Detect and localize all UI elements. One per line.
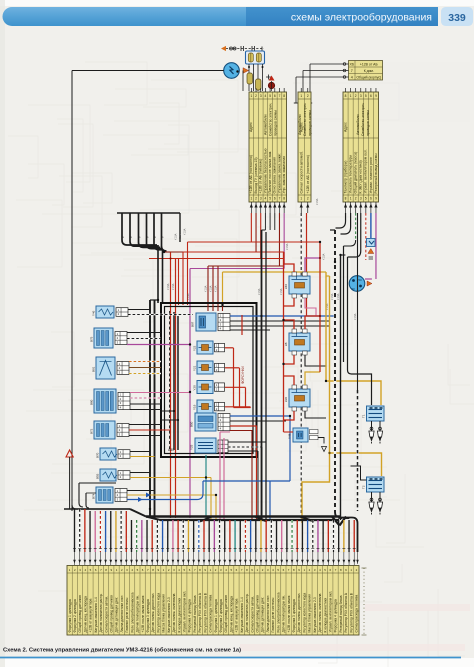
svg-text:Регулятор РХХ обмотка В: Регулятор РХХ обмотка В <box>203 592 207 632</box>
svg-text:Автомобили: Автомобили <box>356 115 360 135</box>
fuse block F1/F2 <box>246 51 265 64</box>
svg-text:К36: К36 <box>284 397 288 402</box>
wires: B55 outputs <box>130 473 211 520</box>
svg-text:+12В от аккумулятора: +12В от аккумулятора <box>89 599 93 633</box>
svg-text:Датчик полож. дроссельн.: Датчик полож. дроссельн. <box>297 593 301 633</box>
fuel pump motor (blue circle) <box>224 63 240 79</box>
svg-text:6: 6 <box>274 197 276 201</box>
connector table X3 <box>343 92 379 202</box>
svg-text:К 15А: К 15А <box>179 233 182 240</box>
wires: B91 outputs <box>129 362 161 374</box>
svg-text:К 15А: К 15А <box>175 233 178 240</box>
injector Y21 <box>193 361 225 374</box>
wire: mustard loop to coil T2 <box>302 276 382 523</box>
svg-text:Масса блока управления: Масса блока управления <box>308 594 312 633</box>
svg-text:1: 1 <box>350 94 352 98</box>
svg-text:Датчик полож. дроссельн.: Датчик полож. дроссельн. <box>151 593 155 633</box>
wire bundle: bottom comb drops to connector strip <box>73 509 356 565</box>
svg-text:6: 6 <box>370 197 372 201</box>
wires: B50 outputs <box>230 416 290 519</box>
svg-text:+12В от АБ (постоянно): +12В от АБ (постоянно) <box>306 155 310 193</box>
wires: pink pair to bus <box>220 432 230 519</box>
svg-text:+12В от АБ: +12В от АБ <box>360 62 379 66</box>
svg-text:проводов схемы: проводов схемы <box>308 110 312 136</box>
svg-text:К дим.: К дим. <box>364 69 374 73</box>
svg-text:Указатель температуры: Указатель температуры <box>349 154 353 193</box>
relay К36 <box>284 385 310 411</box>
wires: Y25 outputs <box>228 442 266 519</box>
svg-text:Датчик конц. кислорода: Датчик конц. кислорода <box>229 596 233 633</box>
svg-text:Датчик температуры ож.: Датчик температуры ож. <box>282 595 286 632</box>
svg-text:В50: В50 <box>190 421 194 427</box>
svg-text:К ЭБУ (диагностика): К ЭБУ (диагностика) <box>359 160 363 193</box>
wires: B72 outputs <box>129 425 171 436</box>
sensor В72 <box>90 421 130 439</box>
connector table X1 <box>249 92 287 202</box>
wires: black pair right of ECU <box>262 230 267 519</box>
ground lug (red arrow) <box>66 450 73 509</box>
svg-text:Тахометр (приборы): Тахометр (приборы) <box>343 161 347 194</box>
svg-text:Резервный вывод схемы: Резервный вывод схемы <box>374 153 378 194</box>
svg-text:8: 8 <box>345 94 347 98</box>
svg-text:Общий провод датчиков: Общий провод датчиков <box>255 595 259 633</box>
valve Y25 inside ECU <box>190 438 229 453</box>
svg-text:Управление безопасностью: Управление безопасностью <box>263 148 267 193</box>
wire: red right of ECU <box>283 252 285 432</box>
svg-text:Датчик положения распр.: Датчик положения распр. <box>99 593 103 632</box>
wire: thick dashed black vertical (main harness) <box>330 230 352 518</box>
wires: fuse block down-drops <box>243 64 264 91</box>
wires: B80 outputs <box>130 393 190 410</box>
svg-text:9: 9 <box>375 197 377 201</box>
wires: injector feeds from ECU top <box>208 305 223 311</box>
wire: blue harness y481 <box>203 481 290 519</box>
warning arrow (red) <box>269 76 275 81</box>
svg-text:Регулятор РХХ обмотка А: Регулятор РХХ обмотка А <box>344 592 348 632</box>
wires: B70 outputs <box>130 452 155 457</box>
svg-text:Y19: Y19 <box>193 404 197 410</box>
svg-text:Катушка зажигания 2-3: Катушка зажигания 2-3 <box>167 597 171 632</box>
svg-text:9: 9 <box>375 94 377 98</box>
svg-text:Общий двигатель (масса): Общий двигатель (масса) <box>354 152 358 194</box>
ECU control unit A30 <box>161 303 257 457</box>
sensor В80 <box>90 389 131 413</box>
sensor В74 <box>92 487 128 503</box>
wires: X2 top stems <box>301 88 308 92</box>
svg-text:+12В от АБ (постоянно): +12В от АБ (постоянно) <box>249 155 253 193</box>
wires: relay K8 connections <box>284 316 327 366</box>
wire: red feed vertical at relays <box>319 242 321 372</box>
sensor block B97 inside ECU <box>191 313 231 331</box>
svg-text:6: 6 <box>274 94 276 98</box>
svg-text:Семейство электрич.: Семейство электрич. <box>361 103 365 136</box>
svg-text:30: 30 <box>351 287 355 291</box>
ignition coil Т1 <box>362 406 385 421</box>
injector Y22 <box>193 341 225 354</box>
spark plug <box>369 426 374 444</box>
svg-text:проводов схемы: проводов схемы <box>366 110 370 136</box>
svg-text:Y48: Y48 <box>288 433 292 439</box>
svg-text:4: 4 <box>265 94 267 98</box>
svg-text:К46: К46 <box>284 284 288 289</box>
svg-text:Форсунка 1 цилиндра: Форсунка 1 цилиндра <box>214 599 218 632</box>
svg-text:Датчик детонации двиг.: Датчик детонации двиг. <box>261 596 265 632</box>
svg-text:3: 3 <box>360 94 362 98</box>
svg-text:Y46: Y46 <box>92 310 96 316</box>
svg-text:Реле электробензонасоса: Реле электробензонасоса <box>276 592 280 632</box>
svg-text:Регулятор РХХ обмотка В: Регулятор РХХ обмотка В <box>349 592 353 632</box>
svg-text:7: 7 <box>279 197 281 201</box>
injector Y19 <box>193 400 225 413</box>
wire: pump to left long run <box>72 70 224 72</box>
svg-text:Форсунка 4 цилиндра: Форсунка 4 цилиндра <box>188 599 192 632</box>
svg-text:К 15А: К 15А <box>280 288 283 295</box>
wire: mustard loop to coil T1 <box>326 272 381 405</box>
svg-text:Автомобили: Автомобили <box>263 115 267 135</box>
svg-text:1: 1 <box>300 197 302 201</box>
svg-text:Катушка зажигания 2-3: Катушка зажигания 2-3 <box>313 597 317 632</box>
svg-text:Масса блока управления: Масса блока управления <box>162 594 166 633</box>
svg-text:2: 2 <box>255 197 257 201</box>
svg-text:Форсунка 2 цилиндра: Форсунка 2 цилиндра <box>73 599 77 632</box>
wires: X1 top stems <box>251 88 284 92</box>
svg-text:Сигнал расхода топлива: Сигнал расхода топлива <box>355 595 359 633</box>
fuse holder 2 (olive) <box>256 79 262 90</box>
wires: X3 bottom stems <box>344 202 378 213</box>
svg-text:Питание после замка заж.: Питание после замка заж. <box>268 151 272 194</box>
svg-text:8: 8 <box>345 197 347 201</box>
svg-text:Y25: Y25 <box>190 444 194 450</box>
svg-text:В80: В80 <box>90 399 94 405</box>
svg-text:50: 50 <box>358 278 362 282</box>
svg-text:Датчик положения распр.: Датчик положения распр. <box>245 593 249 632</box>
wires: coil T1 feed hooks <box>344 246 372 405</box>
injector Y20 <box>193 381 225 394</box>
svg-text:Датчик полож. коленвала: Датчик полож. коленвала <box>318 593 322 632</box>
svg-text:К 15А: К 15А <box>167 283 170 290</box>
connector table X2 <box>298 92 312 202</box>
svg-text:6: 6 <box>370 94 372 98</box>
svg-text:Сигнал скорости автом.: Сигнал скорости автом. <box>104 596 108 633</box>
wires: B75 outputs <box>127 333 190 345</box>
wires: left drain hooks to bus <box>64 483 146 517</box>
svg-text:1: 1 <box>350 197 352 201</box>
wires: below table X3 <box>336 213 376 279</box>
spark plug <box>369 497 374 515</box>
junction dots <box>149 241 342 510</box>
svg-text:Y20: Y20 <box>193 385 197 391</box>
relay К46 <box>284 272 310 298</box>
svg-text:1: 1 <box>300 94 302 98</box>
wires: injector ladder (red) <box>225 315 251 408</box>
svg-text:Х6: Х6 <box>349 62 353 66</box>
svg-text:К 15А: К 15А <box>209 285 212 292</box>
svg-text:Схема 2. Система управления дв: Схема 2. Система управления двигателем У… <box>3 647 241 654</box>
svg-text:Управл. главного реле: Управл. главного реле <box>369 157 373 193</box>
svg-text:Датчик детонации двиг.: Датчик детонации двиг. <box>115 596 119 632</box>
wires: B97 outputs <box>230 316 335 330</box>
svg-text:2: 2 <box>307 94 309 98</box>
page header bar <box>3 7 474 26</box>
wires: relay K36 connections <box>284 372 327 420</box>
svg-text:+12В после замка зажиг.: +12В после замка зажиг. <box>287 595 291 633</box>
svg-text:3: 3 <box>260 197 262 201</box>
svg-text:339: 339 <box>448 12 466 24</box>
wire: comb bus top <box>117 212 180 214</box>
svg-text:Форсунка 3 цилиндра: Форсунка 3 цилиндра <box>146 599 150 632</box>
wire: dashed vertical near coils <box>341 213 359 564</box>
wires: X3 top stems <box>346 88 376 92</box>
sensor В75 <box>90 328 128 348</box>
svg-text:Катушка зажигания 1-4: Катушка зажигания 1-4 <box>240 597 244 632</box>
svg-text:Резервный вывод блока: Резервный вывод блока <box>193 595 197 632</box>
svg-text:К 15А: К 15А <box>184 228 187 235</box>
svg-text:1: 1 <box>250 197 252 201</box>
wire: comb funnel verticals <box>158 213 180 303</box>
svg-text:К 15А: К 15А <box>286 243 289 250</box>
svg-text:Резервный вывод блока: Резервный вывод блока <box>339 595 343 632</box>
svg-text:К8: К8 <box>284 342 288 346</box>
svg-text:Реле электробензонасоса: Реле электробензонасоса <box>130 592 134 632</box>
svg-text:Главное реле системы: Главное реле системы <box>271 597 275 632</box>
svg-text:Адрес: Адрес <box>299 122 303 132</box>
svg-text:2: 2 <box>355 197 357 201</box>
svg-text:2: 2 <box>255 94 257 98</box>
ignition coil Т2 <box>362 477 385 492</box>
wire: magenta to starter <box>365 278 372 280</box>
svg-text:2: 2 <box>307 197 309 201</box>
wires: red stubs into ECU top <box>179 242 327 305</box>
dotted measure line right of table X5 <box>362 568 367 635</box>
svg-text:1: 1 <box>250 94 252 98</box>
svg-text:Форсунка 2 цилиндра: Форсунка 2 цилиндра <box>219 599 223 632</box>
wires: below table X1 <box>149 213 320 269</box>
wires: coil T2 to plugs <box>351 466 381 497</box>
svg-text:А30: А30 <box>168 448 174 452</box>
wire: long left vertical bus <box>71 71 73 512</box>
wires: relay K46 connections <box>284 252 321 316</box>
svg-text:К 15А: К 15А <box>214 285 217 292</box>
svg-text:Общий провод датчиков: Общий провод датчиков <box>78 595 82 633</box>
svg-text:В70: В70 <box>96 452 100 458</box>
svg-text:5: 5 <box>269 197 271 201</box>
svg-text:Сигнал скорости автомоб.: Сигнал скорости автомоб. <box>299 151 303 194</box>
wire labels <box>167 198 357 320</box>
wire: main bottom bus <box>146 517 346 526</box>
svg-text:В75: В75 <box>90 336 94 342</box>
svg-text:8: 8 <box>283 197 285 201</box>
svg-text:Управление замка зажиг.: Управление замка зажиг. <box>277 153 281 194</box>
svg-text:К 15А: К 15А <box>204 285 207 292</box>
svg-text:Адрес: Адрес <box>249 122 253 132</box>
wires: B74 outputs <box>127 481 216 519</box>
svg-text:Семейство электрич.: Семейство электрич. <box>303 103 307 136</box>
svg-text:Датчик конц. кислорода: Датчик конц. кислорода <box>83 596 87 633</box>
svg-text:Катушка зажигания 1-4: Катушка зажигания 1-4 <box>94 597 98 632</box>
wire: dashed link line at top <box>221 46 264 51</box>
wires: black verticals to bottom bus <box>150 300 158 518</box>
svg-text:Управл. вентилятором охл.: Управл. вентилятором охл. <box>364 149 368 193</box>
svg-text:+12В от АБ (питание): +12В от АБ (питание) <box>259 159 263 194</box>
svg-text:+12В после замка зажиг.: +12В после замка зажиг. <box>141 595 145 633</box>
svg-text:Упр. замком зажигания: Упр. замком зажигания <box>282 156 286 194</box>
wires: X1 bottom stems <box>250 202 286 213</box>
connector arrow at pump <box>243 68 249 74</box>
page number box <box>441 7 473 26</box>
svg-text:Управл. вентилятором охл.: Управл. вентилятором охл. <box>328 591 332 633</box>
svg-text:2: 2 <box>355 94 357 98</box>
svg-text:В97: В97 <box>191 321 195 327</box>
sensor В55 <box>96 469 131 481</box>
relay К8 <box>284 329 310 355</box>
wires: red harness verticals <box>164 252 176 518</box>
svg-text:ФОРСУНКИ: ФОРСУНКИ <box>241 366 245 384</box>
svg-text:Сигнал расхода топлива: Сигнал расхода топлива <box>209 595 213 633</box>
connector arrow at starter <box>367 281 372 286</box>
svg-text:проводов схемы: проводов схемы <box>273 110 277 136</box>
svg-text:3: 3 <box>360 197 362 201</box>
valve Y48 <box>288 428 319 442</box>
starter motor (blue circle) <box>349 276 365 292</box>
sensor Y46 <box>92 306 129 318</box>
svg-text:5: 5 <box>365 197 367 201</box>
svg-text:В72: В72 <box>90 428 94 434</box>
wires: Y46 outputs <box>128 310 193 315</box>
svg-text:К колодке диагностики: К колодке диагностики <box>177 598 181 633</box>
svg-text:4: 4 <box>351 75 353 79</box>
svg-text:схемы электрооборудования: схемы электрооборудования <box>291 12 432 24</box>
sensor block B50 inside ECU <box>190 413 231 431</box>
fuse holder (olive) <box>247 73 253 84</box>
svg-text:Семейство электрич.: Семейство электрич. <box>268 103 272 136</box>
svg-text:Регулятор холостого хода: Регулятор холостого хода <box>156 593 160 633</box>
svg-text:Форсунка 3 цилиндра: Форсунка 3 цилиндра <box>292 599 296 632</box>
svg-text:Y22: Y22 <box>193 345 197 351</box>
svg-text:7: 7 <box>351 69 353 73</box>
svg-text:Адрес: Адрес <box>343 122 347 132</box>
svg-text:К колодке диагностики: К колодке диагностики <box>323 598 327 633</box>
svg-text:Форсунка 4 цилиндра: Форсунка 4 цилиндра <box>334 599 338 632</box>
sensor В91 <box>92 357 130 379</box>
svg-text:В74: В74 <box>92 493 96 499</box>
wire: magenta long vertical <box>189 269 191 519</box>
connector arrow below diagnostic box <box>368 249 374 254</box>
wires: X2 bottom stems <box>300 202 310 213</box>
footer rule (blue) <box>0 657 461 659</box>
svg-text:Регулятор РХХ обмотка А: Регулятор РХХ обмотка А <box>198 592 202 632</box>
svg-text:Датчик температуры ож.: Датчик температуры ож. <box>136 595 140 632</box>
svg-text:Окно замка зажигания: Окно замка зажигания <box>273 157 277 193</box>
wires: Y48 connections + ground <box>284 432 327 452</box>
svg-text:Общий провод датчиков: Общий провод датчиков <box>224 595 228 633</box>
svg-text:5: 5 <box>269 94 271 98</box>
svg-text:Выход ГУ (клемма 15): Выход ГУ (клемма 15) <box>254 157 258 193</box>
svg-text:5: 5 <box>365 94 367 98</box>
svg-text:В55: В55 <box>96 473 100 479</box>
svg-text:Лампа диагностики сист.: Лампа диагностики сист. <box>120 595 124 633</box>
svg-text:К 15А: К 15А <box>172 283 175 290</box>
diagnostic connector (small blue box) <box>367 239 376 247</box>
indicator lamp (dark red circle) <box>268 82 274 88</box>
svg-text:Общий (корпус): Общий (корпус) <box>356 75 381 79</box>
svg-text:Сигнал скорости автом.: Сигнал скорости автом. <box>250 596 254 633</box>
connector table X4 <box>349 61 383 81</box>
wires: below table X2 <box>301 213 320 520</box>
svg-text:К 15А: К 15А <box>354 313 357 320</box>
svg-text:Форсунка 1 цилиндра: Форсунка 1 цилиндра <box>68 599 72 632</box>
svg-text:3: 3 <box>260 94 262 98</box>
svg-text:В91: В91 <box>92 366 96 372</box>
svg-text:Т1: Т1 <box>362 414 366 418</box>
sensor В70 <box>96 448 131 460</box>
svg-text:8: 8 <box>283 94 285 98</box>
spark plug <box>377 497 382 515</box>
svg-text:К 15А: К 15А <box>258 288 261 295</box>
svg-text:К 15А: К 15А <box>187 293 190 300</box>
svg-text:Общий провод датчиков: Общий провод датчиков <box>109 595 113 633</box>
svg-text:7: 7 <box>279 94 281 98</box>
spark plug <box>377 426 382 444</box>
svg-text:Управл. вентилятором охл.: Управл. вентилятором охл. <box>182 591 186 633</box>
wire: teal vertical <box>205 455 207 519</box>
wire: black harness vertical 2 <box>341 255 346 520</box>
svg-text:К 15А: К 15А <box>322 253 325 260</box>
wires: comb drops <box>121 213 166 251</box>
svg-text:Главное реле системы: Главное реле системы <box>125 597 129 632</box>
svg-text:4: 4 <box>265 197 267 201</box>
svg-text:Регулятор холостого хода: Регулятор холостого хода <box>302 593 306 633</box>
svg-text:К 15А: К 15А <box>337 293 340 300</box>
svg-text:Лампа диагностики сист.: Лампа диагностики сист. <box>266 595 270 633</box>
svg-text:Т2: Т2 <box>362 485 366 489</box>
connector table X5 (ECU pinout list) <box>67 566 359 636</box>
svg-text:Y21: Y21 <box>193 365 197 371</box>
svg-text:+12В от аккумулятора: +12В от аккумулятора <box>235 599 239 633</box>
svg-text:К 15А: К 15А <box>316 198 319 205</box>
diode symbol <box>266 75 271 80</box>
wires: X4 harness to left <box>294 63 349 103</box>
svg-text:Датчик полож. коленвала: Датчик полож. коленвала <box>172 593 176 632</box>
wires: coil T1 to plugs <box>372 421 381 426</box>
